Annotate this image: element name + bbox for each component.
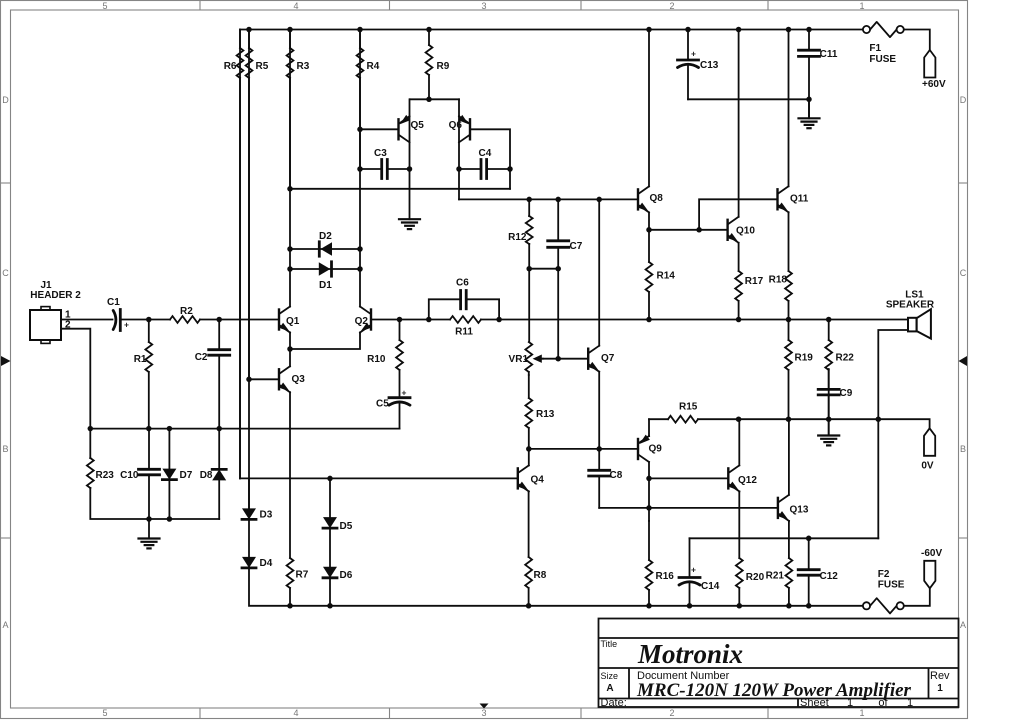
svg-text:A: A <box>960 620 966 630</box>
svg-text:R15: R15 <box>679 402 698 413</box>
resistor R10 <box>367 320 403 398</box>
resistor R6 <box>224 30 244 479</box>
resistor R15 <box>649 402 739 423</box>
transistor Q1 <box>279 307 300 333</box>
svg-text:+: + <box>124 320 129 330</box>
svg-text:3: 3 <box>481 708 486 718</box>
svg-text:C14: C14 <box>701 581 720 592</box>
transistor Q2 <box>355 307 371 333</box>
wire Q3 base <box>249 378 277 380</box>
svg-text:R10: R10 <box>367 354 386 365</box>
svg-text:R3: R3 <box>297 61 310 72</box>
title block <box>599 619 959 710</box>
wire R23 top lead <box>89 429 91 458</box>
transistor Q6 <box>449 115 470 169</box>
svg-text:1: 1 <box>847 697 853 709</box>
capacitor C6 <box>429 278 499 320</box>
svg-text:5: 5 <box>102 708 107 718</box>
junction Q1/Q3 <box>287 346 293 352</box>
svg-text:B: B <box>2 444 8 454</box>
svg-text:B: B <box>960 444 966 454</box>
svg-text:R13: R13 <box>536 409 555 420</box>
svg-text:D6: D6 <box>340 570 353 581</box>
wire C1 to node <box>121 319 149 321</box>
wire Q9 collector stub <box>648 419 650 436</box>
wire R4/Q2 collector column <box>359 30 361 307</box>
transistor Q3 <box>279 366 305 392</box>
diode D2 <box>290 231 360 256</box>
junctions D1/D2 <box>287 246 363 272</box>
connector J1 HEADER 2 <box>30 280 81 343</box>
junction Q3 base <box>246 377 252 383</box>
svg-text:R23: R23 <box>96 470 115 481</box>
svg-text:C10: C10 <box>120 470 139 481</box>
transistor Q5 <box>399 115 425 169</box>
wire lower ground row <box>90 488 219 519</box>
wire Q5 emitter stub <box>409 99 411 116</box>
svg-text:R19: R19 <box>795 353 814 364</box>
svg-text:1: 1 <box>859 708 864 718</box>
svg-text:1: 1 <box>907 697 913 709</box>
svg-text:3: 3 <box>481 1 486 11</box>
transistor Q8 <box>638 30 663 230</box>
svg-text:D: D <box>2 95 9 105</box>
svg-text:+60V: +60V <box>922 79 946 90</box>
wire C7 bottom lead <box>557 247 559 268</box>
svg-text:Size: Size <box>601 671 619 681</box>
junction feedback row <box>287 186 293 192</box>
svg-text:Q11: Q11 <box>790 194 809 205</box>
svg-text:C13: C13 <box>700 60 719 71</box>
wire C14 top row <box>690 537 879 539</box>
transistor Q13 <box>778 419 809 521</box>
ground below C9 <box>818 419 839 445</box>
svg-text:C1: C1 <box>107 297 120 308</box>
svg-text:R12: R12 <box>508 232 527 243</box>
svg-text:Q1: Q1 <box>286 316 300 327</box>
svg-text:Q12: Q12 <box>738 475 757 486</box>
transistor Q4 <box>518 449 544 492</box>
svg-text:D3: D3 <box>260 510 273 521</box>
svg-text:D7: D7 <box>180 470 193 481</box>
svg-text:C3: C3 <box>374 148 387 159</box>
capacitor C9 <box>818 369 853 419</box>
svg-text:-60V: -60V <box>921 548 942 559</box>
svg-text:Motronix: Motronix <box>637 639 743 669</box>
capacitor C10 <box>120 429 159 519</box>
svg-text:C: C <box>2 268 9 278</box>
svg-text:R4: R4 <box>367 61 380 72</box>
svg-text:C9: C9 <box>840 388 853 399</box>
junctions C3/C4 row <box>357 166 513 172</box>
svg-text:1: 1 <box>859 1 864 11</box>
svg-text:F1: F1 <box>869 43 881 54</box>
svg-text:5: 5 <box>102 1 107 11</box>
capacitor C1 <box>107 297 129 331</box>
svg-text:4: 4 <box>293 1 298 11</box>
svg-text:F2: F2 <box>878 569 890 580</box>
svg-text:of: of <box>878 697 888 709</box>
wire ground bus <box>90 428 399 430</box>
svg-text:+: + <box>691 49 696 59</box>
wire to Q11 base <box>699 199 776 230</box>
capacitor C14 <box>679 538 720 606</box>
speaker LS1 <box>886 290 935 339</box>
wire Q12 base <box>649 477 727 479</box>
resistor R22 <box>825 320 854 420</box>
wire Q5 base <box>360 128 397 130</box>
wire J1 pin2 down <box>61 329 90 429</box>
svg-text:2: 2 <box>669 708 674 718</box>
wire R5/D3 column <box>248 30 250 509</box>
resistor R21 <box>766 521 793 606</box>
wire R12 to VR1 <box>528 244 530 342</box>
wire Q6 emitter stub <box>458 99 460 116</box>
junctions on +60V rail <box>246 27 812 33</box>
wire +60V rail <box>240 29 862 31</box>
fuse F1 <box>863 22 904 65</box>
capacitor C12 <box>798 538 838 606</box>
wire 0V row <box>739 419 930 428</box>
junction Q5 base <box>357 127 363 133</box>
svg-text:FUSE: FUSE <box>878 580 905 591</box>
junctions driver row <box>646 227 702 233</box>
svg-text:R11: R11 <box>455 327 473 338</box>
wire C7 to wiper node <box>557 269 559 359</box>
transistor Q9 <box>638 435 662 521</box>
wire Q1 emitter to Q3 collector <box>289 333 291 367</box>
resistor R3 <box>287 30 310 189</box>
junctions y99 <box>426 97 812 103</box>
transistor Q7 <box>588 346 615 372</box>
junctions R12/C7 <box>526 266 561 272</box>
svg-text:Rev: Rev <box>930 670 950 682</box>
capacitor C2 <box>195 320 230 429</box>
transistor Q10 <box>728 30 756 243</box>
junctions output line <box>146 317 831 323</box>
wire D6 bottom lead <box>329 578 331 606</box>
junctions Q9 base row <box>526 446 602 452</box>
svg-text:R20: R20 <box>746 572 765 583</box>
svg-text:+: + <box>691 565 696 575</box>
wire Q7 collector column <box>598 199 600 345</box>
wire C11 top lead <box>808 30 810 51</box>
resistor R18 <box>769 212 792 319</box>
svg-text:C2: C2 <box>195 352 208 363</box>
wire Q8 emitter to Q10 base <box>649 229 726 231</box>
svg-text:Q10: Q10 <box>736 226 755 237</box>
svg-text:R14: R14 <box>657 271 676 282</box>
diode D3 <box>242 478 273 520</box>
resistor R9 <box>426 30 450 100</box>
svg-text:Q5: Q5 <box>411 120 425 131</box>
resistor R7 <box>287 392 309 606</box>
wire R12-C7 join <box>529 268 558 270</box>
junctions 0V row <box>736 416 881 422</box>
svg-text:Sheet: Sheet <box>800 697 829 709</box>
svg-text:A: A <box>606 683 613 694</box>
svg-text:Title: Title <box>601 639 618 649</box>
wire J1 pin1 to C1 <box>61 319 113 321</box>
svg-text:R16: R16 <box>656 571 675 582</box>
capacitor C5 <box>376 388 410 429</box>
wire C9 gnd stub <box>828 419 830 434</box>
svg-text:R9: R9 <box>437 61 450 72</box>
svg-text:C8: C8 <box>610 470 623 481</box>
svg-text:R18: R18 <box>769 275 788 286</box>
diode D6 <box>323 528 353 581</box>
svg-text:Q3: Q3 <box>292 374 306 385</box>
junctions bias row <box>327 476 652 482</box>
junction wiper <box>555 356 561 362</box>
resistor R19 <box>785 320 813 420</box>
svg-text:2: 2 <box>65 319 71 330</box>
svg-text:1: 1 <box>937 683 943 694</box>
wire R3/Q1 collector column <box>289 30 291 307</box>
svg-text:Q8: Q8 <box>650 193 664 204</box>
svg-text:R5: R5 <box>256 61 269 72</box>
svg-text:2: 2 <box>669 1 674 11</box>
power terminal 0V <box>921 428 935 471</box>
svg-text:C12: C12 <box>820 571 839 582</box>
svg-text:C4: C4 <box>479 148 492 159</box>
wire LS1 return <box>878 330 908 538</box>
wire feedback row <box>290 188 510 190</box>
svg-text:C7: C7 <box>570 241 583 252</box>
power terminal +60V <box>922 50 946 90</box>
svg-text:Q6: Q6 <box>449 120 463 131</box>
junction C12 top <box>806 536 812 542</box>
resistor R1 <box>134 320 152 429</box>
capacitor C4 <box>459 148 510 179</box>
junctions VAS row <box>526 197 602 203</box>
svg-text:+: + <box>402 388 407 398</box>
ground below C10 <box>139 519 160 548</box>
svg-text:FUSE: FUSE <box>869 54 896 65</box>
resistor R23 <box>87 458 114 488</box>
diode D7 <box>162 429 192 519</box>
svg-text:R17: R17 <box>745 276 764 287</box>
diode D4 <box>242 520 273 569</box>
wire Q1-Q2 emitter join <box>290 333 360 349</box>
wire Q6 base to C4 <box>471 129 510 189</box>
capacitor C7 <box>548 241 583 252</box>
svg-text:SPEAKER: SPEAKER <box>886 300 935 311</box>
junctions -60V rail <box>287 603 811 609</box>
resistor R14 <box>646 230 676 320</box>
svg-text:C: C <box>960 268 967 278</box>
svg-text:A: A <box>2 620 8 630</box>
svg-text:VR1: VR1 <box>509 354 529 365</box>
svg-text:C11: C11 <box>820 49 838 60</box>
svg-text:D5: D5 <box>340 521 353 532</box>
svg-text:D4: D4 <box>260 558 273 569</box>
svg-text:Date:: Date: <box>601 697 627 709</box>
wire C8 to Q13 base <box>599 507 777 509</box>
svg-text:HEADER 2: HEADER 2 <box>30 290 81 301</box>
svg-text:R1: R1 <box>134 354 147 365</box>
wire to -60V terminal <box>905 588 930 606</box>
svg-text:D8: D8 <box>200 470 213 481</box>
wire VR1 wiper to Q7 base <box>541 358 587 360</box>
ground near Q5/Q6 <box>399 169 420 229</box>
svg-text:Q9: Q9 <box>649 444 663 455</box>
svg-text:Q7: Q7 <box>601 353 615 364</box>
resistor R4 <box>357 30 380 170</box>
diode D1 <box>290 262 360 291</box>
resistor R20 <box>736 492 765 606</box>
wire to ground <box>808 99 810 117</box>
resistor R8 <box>525 491 547 605</box>
ground near C11 <box>799 99 820 128</box>
potentiometer VR1 <box>509 342 543 375</box>
wire C13 to C11 node <box>688 98 809 100</box>
wire R6 column <box>239 30 241 479</box>
wire C7 top lead <box>557 199 559 240</box>
wire to +60V terminal <box>905 30 930 51</box>
svg-text:0V: 0V <box>921 461 934 472</box>
svg-text:D2: D2 <box>319 231 332 242</box>
junctions lower ground row <box>146 516 172 522</box>
diode D5 <box>323 478 353 532</box>
wire bias row to Q4 base <box>240 477 518 479</box>
resistor R2 <box>149 306 219 323</box>
svg-text:C5: C5 <box>376 399 389 410</box>
wire Q6 collector to Q8 base <box>459 198 636 200</box>
transistor Q12 <box>728 419 757 491</box>
junction Q13 base row <box>646 505 652 511</box>
wire R13 to Q9 base <box>529 448 638 450</box>
fuse F2 <box>863 569 905 613</box>
wire Q7 emitter column <box>598 372 600 449</box>
svg-text:R2: R2 <box>180 306 193 317</box>
svg-text:Q2: Q2 <box>355 316 369 327</box>
wire C11 bottom lead <box>808 56 810 99</box>
svg-text:R21: R21 <box>766 571 785 582</box>
wire Q2 base to R11 <box>372 319 429 321</box>
junctions ground bus <box>88 426 222 432</box>
wire output line to LS1 <box>499 319 908 321</box>
resistor R12 <box>508 216 532 244</box>
svg-text:R8: R8 <box>534 570 547 581</box>
wire R12 top lead <box>528 199 530 216</box>
wire Q5-Q6 emitter join <box>410 98 459 100</box>
svg-text:4: 4 <box>293 708 298 718</box>
svg-text:MRC-120N 120W Power Amplifier: MRC-120N 120W Power Amplifier <box>636 680 912 701</box>
svg-text:R7: R7 <box>296 570 309 581</box>
diode D8 <box>200 429 226 519</box>
resistor R11 <box>429 316 499 337</box>
capacitor C3 <box>360 148 410 179</box>
svg-text:D: D <box>960 95 967 105</box>
capacitor C8 <box>589 449 623 508</box>
capacitor C13 <box>678 30 719 100</box>
power terminal -60V <box>921 548 942 588</box>
svg-text:R6: R6 <box>224 61 237 72</box>
resistor R17 <box>735 243 763 320</box>
wire -60V rail <box>249 568 862 606</box>
svg-text:C6: C6 <box>456 278 469 289</box>
svg-text:Q4: Q4 <box>531 475 545 486</box>
resistor R13 <box>525 375 554 449</box>
svg-text:D1: D1 <box>319 280 332 291</box>
svg-text:Q13: Q13 <box>790 505 809 516</box>
svg-text:R22: R22 <box>836 353 855 364</box>
capacitor C11 <box>799 49 838 60</box>
resistor R16 <box>646 521 675 606</box>
transistor Q11 <box>778 30 809 213</box>
wire Q6 collector drop <box>458 169 460 199</box>
wire to Q1 base <box>219 319 277 321</box>
resistor R5 <box>246 30 269 380</box>
